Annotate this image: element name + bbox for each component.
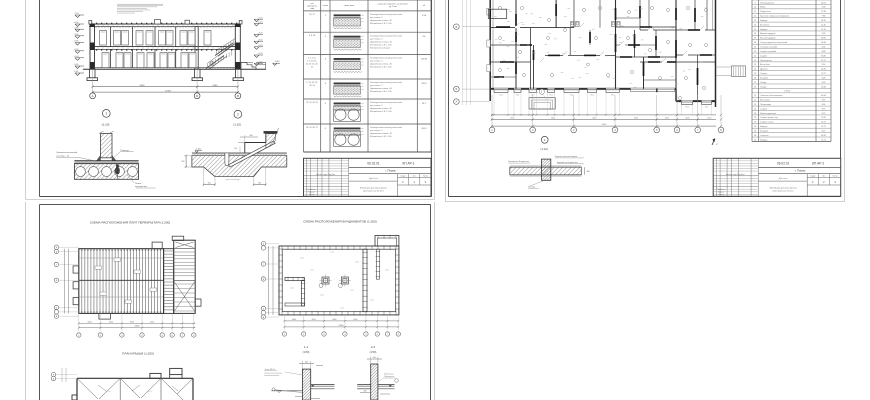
svg-text:6000: 6000 [551, 118, 555, 120]
building section - staircase [206, 39, 235, 70]
svg-text:Дип.бчть: Дип.бчть [779, 178, 789, 180]
svg-text:20, 24: 20, 24 [309, 85, 314, 87]
svg-text:ПЛАН КРЫШИ (1:200): ПЛАН КРЫШИ (1:200) [122, 352, 154, 356]
svg-text:Востановая: Востановая [760, 100, 770, 102]
svg-text:Консульт: Консульт [308, 192, 315, 194]
svg-text:6000: 6000 [707, 118, 711, 120]
detail 2 - elevation mark [195, 149, 202, 153]
svg-text:Дип.бчть: Дип.бчть [369, 178, 379, 180]
svg-text:640: 640 [373, 357, 376, 359]
svg-text:Стадия: Стадия [810, 176, 815, 178]
svg-text:16, 17: 16, 17 [309, 14, 314, 16]
svg-text:+6.00: +6.00 [73, 22, 79, 24]
svg-text:2: 2 [237, 113, 239, 117]
detail 1 label cement mortar [57, 151, 98, 161]
detail 1-1 ground line [271, 388, 302, 393]
svg-text:Линолеум безосновный утепленны: Линолеум безосновный утепленный [370, 34, 402, 37]
svg-text:10: 10 [754, 7, 756, 9]
floor plan bottom axis circles [489, 127, 724, 133]
foundation scheme outer walls [278, 245, 400, 316]
svg-text:Санузел сестры: Санузел сестры [760, 122, 774, 124]
svg-text:600: 600 [208, 183, 211, 185]
svg-text:-0.45: -0.45 [275, 61, 281, 63]
svg-text:Б: Б [456, 87, 458, 91]
building section - foundation left [87, 69, 98, 80]
svg-text:6000: 6000 [353, 319, 357, 321]
svg-text:27: 27 [754, 82, 756, 84]
svg-text:+1.20: +1.20 [73, 49, 79, 51]
svg-text:В: В [237, 94, 239, 98]
svg-text:11960: 11960 [165, 90, 172, 92]
svg-text:6000: 6000 [665, 118, 669, 120]
floors table grid [304, 0, 432, 152]
svg-text:11: 11 [754, 11, 756, 13]
svg-text:Стадия: Стадия [400, 176, 405, 178]
floors table data rows [306, 13, 428, 146]
title block frame [304, 158, 432, 196]
svg-text:i=1:12: i=1:12 [148, 391, 153, 393]
svg-text:Мужской гардероб: Мужской гардероб [760, 32, 776, 35]
svg-text:Спальная, бечесловащина: Спальная, бечесловащина [760, 95, 782, 97]
svg-text:Лист: Лист [413, 176, 417, 178]
floor plan interior walls vertical [516, 0, 707, 101]
building section - ceiling hatch 2nd floor [96, 27, 231, 29]
detail 1 - anchor bolt [115, 165, 119, 180]
svg-text:ОК-1: ОК-1 [499, 95, 503, 97]
title block project name cell [349, 178, 398, 197]
title block project name cell [758, 178, 807, 197]
svg-text:7.86: 7.86 [822, 16, 826, 18]
svg-text:-1.100: -1.100 [195, 149, 202, 151]
detail 1 - partition column [99, 131, 114, 158]
svg-text:ОК-1: ОК-1 [590, 95, 594, 97]
svg-text:6000: 6000 [510, 118, 514, 120]
svg-text:Железобетонный грунт: Железобетонный грунт [370, 46, 390, 49]
svg-text:Железобетон 4 Б 5 - 100: Железобетон 4 Б 5 - 100 [370, 44, 391, 46]
svg-text:Железобетон 4 Б 5 - 100: Железобетон 4 Б 5 - 100 [370, 67, 391, 69]
detail 2-2 title [370, 345, 377, 354]
svg-text:Плита: Плита [135, 183, 142, 185]
title block frame [713, 158, 841, 196]
svg-text:13.71: 13.71 [821, 139, 826, 141]
detail 1 - plinth blocks [97, 155, 117, 161]
detail 1-1 bottom dims [295, 397, 320, 399]
slab scheme left dims [64, 249, 68, 314]
detail 2-2 labels [378, 373, 398, 382]
svg-text:г. Пермь: г. Пермь [795, 169, 806, 173]
svg-text:цем стяжка - 5: цем стяжка - 5 [370, 130, 383, 132]
svg-text:Железобетон 4 Б 5 - 100: Железобетон 4 Б 5 - 100 [370, 111, 391, 113]
detail 1 - hollow core slab [74, 164, 138, 180]
floor plan left axis circles [454, 0, 490, 105]
detail 1-1 labels [264, 368, 302, 376]
building section - chimney left [155, 20, 161, 24]
building section - 1st floor doors [102, 53, 196, 68]
svg-text:38.25: 38.25 [421, 83, 427, 85]
floor plan porch bottom [529, 89, 555, 109]
foundation scheme interior walls [285, 249, 380, 312]
svg-text:(1:50): (1:50) [303, 350, 310, 354]
svg-text:цем стяжка - 5: цем стяжка - 5 [370, 105, 383, 107]
svg-text:6000: 6000 [312, 319, 316, 321]
svg-text:Н.контр: Н.контр [309, 194, 315, 196]
svg-text:цем стяжка - 5: цем стяжка - 5 [370, 85, 383, 87]
svg-text:18: 18 [754, 42, 756, 44]
svg-text:Линолеум безосновный утепленны: Линолеум безосновный утепленный [370, 13, 402, 16]
slab scheme protrusions [73, 236, 201, 319]
detail 1 label plinth [115, 150, 134, 157]
svg-text:(1:10): (1:10) [102, 123, 110, 127]
title block city cell [349, 169, 431, 174]
svg-text:КП АР-2: КП АР-2 [812, 162, 824, 166]
slab scheme ladder column [164, 249, 174, 314]
sheet 2 frame [448, 0, 450, 197]
building section - chimney right [185, 20, 190, 24]
svg-text:44.06: 44.06 [821, 2, 826, 4]
floor plan bottom dimension lines [491, 95, 722, 128]
svg-text:26: 26 [754, 77, 756, 79]
svg-text:6.92: 6.92 [822, 100, 826, 102]
svg-text:06.02.01: 06.02.01 [367, 162, 380, 166]
svg-text:+2.85: +2.85 [257, 45, 263, 47]
svg-text:6000: 6000 [150, 321, 154, 323]
svg-text:Церезитовая стяжка - 40: Церезитовая стяжка - 40 [370, 64, 392, 66]
roof plan outline [72, 368, 193, 400]
svg-text:(1:10): (1:10) [541, 147, 548, 151]
svg-text:38.13: 38.13 [421, 128, 427, 130]
building section - left elevation marks [73, 13, 84, 75]
svg-text:Блок ФБС-4: Блок ФБС-4 [265, 368, 275, 371]
svg-text:Мойка: Мойка [760, 6, 765, 9]
svg-text:ОК-1: ОК-1 [705, 106, 709, 108]
svg-text:Линолеум безосновный утепленны: Линолеум безосновный утепленный [370, 57, 402, 60]
svg-text:Церезитовая стяжка - 40: Церезитовая стяжка - 40 [370, 88, 392, 90]
svg-text:Железобетон 4 Б 5 - 100: Железобетон 4 Б 5 - 100 [370, 23, 391, 25]
svg-text:Вестибюль: Вестибюль [760, 24, 769, 26]
detail 1-1 title [303, 345, 310, 354]
svg-text:17.84: 17.84 [821, 11, 826, 13]
svg-text:А: А [92, 94, 94, 98]
svg-text:Склад натуральных облекчений: Склад натуральных облекчений [760, 41, 787, 44]
svg-text:56.36: 56.36 [821, 42, 826, 44]
svg-text:Н.контр: Н.контр [719, 194, 725, 196]
svg-text:14.66: 14.66 [821, 86, 826, 88]
slab scheme right block [174, 240, 196, 313]
svg-text:6000: 6000 [292, 319, 296, 321]
svg-text:7, 9, 10, 11,: 7, 9, 10, 11, [307, 61, 317, 63]
wall detail marker circle [541, 136, 548, 143]
svg-text:380: 380 [364, 391, 367, 393]
svg-text:12.71: 12.71 [821, 60, 826, 62]
svg-text:Кладовая: Кладовая [760, 77, 768, 79]
svg-text:25: 25 [754, 113, 756, 115]
foundation scheme bottom dims [283, 315, 399, 330]
svg-text:30: 30 [754, 135, 756, 137]
detail 2 - left dim [182, 155, 192, 168]
svg-text:17: 17 [754, 38, 756, 40]
svg-text:380: 380 [587, 171, 590, 173]
building section - interior partitions 1st floor [111, 49, 176, 67]
svg-text:+0.00: +0.00 [73, 56, 79, 58]
svg-text:2-2: 2-2 [371, 345, 376, 349]
sheet 3 paper edges [26, 202, 435, 400]
svg-text:Железобетон 4 Б 5 - 100: Железобетон 4 Б 5 - 100 [370, 91, 391, 93]
svg-text:28: 28 [754, 86, 756, 88]
svg-text:44.94: 44.94 [821, 95, 826, 97]
svg-text:+6.00: +6.00 [257, 22, 263, 24]
svg-text:уплотненный грунт: уплотненный грунт [226, 178, 241, 181]
svg-text:Коридор: Коридор [760, 139, 767, 141]
svg-text:Коридор: Коридор [760, 29, 767, 31]
svg-text:21, 22, 23, 25: 21, 22, 23, 25 [306, 102, 318, 104]
svg-text:Тамбур: Тамбур [760, 82, 766, 84]
svg-text:Разработал: Разработал [307, 189, 315, 191]
svg-text:ОК-1: ОК-1 [611, 95, 615, 97]
detail 2 - slab body with footing [192, 156, 287, 177]
svg-text:Жилой дом для престарелых: Жилой дом для престарелых [770, 187, 797, 190]
svg-text:2, 13, 14, 15,: 2, 13, 14, 15, [306, 82, 318, 84]
building section - second floor slab [95, 47, 236, 51]
roof plan hips and ridges [77, 378, 193, 400]
svg-text:16: 16 [754, 33, 756, 35]
svg-text:15: 15 [754, 29, 756, 31]
svg-text:2 Этаж: 2 Этаж [784, 91, 791, 93]
detail 1 label slab [127, 175, 156, 189]
floor plan right entrance stair [716, 66, 746, 77]
svg-text:56.15: 56.15 [821, 20, 826, 22]
detail 2-2 bottom dims [360, 391, 390, 395]
svg-text:12: 12 [754, 16, 756, 18]
svg-text:65.82: 65.82 [821, 38, 826, 40]
svg-text:Консульт: Консульт [718, 192, 725, 194]
svg-text:6000: 6000 [109, 321, 113, 323]
building section - 2nd floor doors [100, 31, 212, 46]
foundation scheme top-right protrusion [375, 235, 399, 246]
detail 2 - bottom dims [203, 167, 267, 186]
svg-text:8.58: 8.58 [822, 51, 826, 53]
axis circle A section [90, 93, 96, 99]
building section - right porch rail [256, 63, 266, 70]
svg-text:1: 1 [105, 112, 107, 116]
svg-text:название покрытия, составной и: название покрытия, составной и [377, 2, 407, 5]
detail 1-1 floor slab [311, 385, 335, 389]
title block city cell [758, 169, 840, 174]
svg-text:+4.80: +4.80 [73, 27, 79, 29]
svg-text:раствор - 10: раствор - 10 [57, 155, 70, 157]
detail 2 - step dims [234, 135, 258, 153]
building section - floor line ground [83, 68, 266, 70]
detail 2-2 floor slabs both sides [357, 385, 394, 389]
svg-text:+2.85: +2.85 [73, 41, 79, 43]
floor plan door openings [515, 23, 705, 62]
svg-text:20: 20 [754, 51, 756, 53]
detail 2 marker circle [234, 110, 242, 118]
svg-text:44.94: 44.94 [821, 135, 826, 137]
svg-text:22: 22 [754, 60, 756, 62]
svg-text:22: 22 [754, 100, 756, 102]
axis circle B section [194, 93, 200, 99]
svg-text:+7.45: +7.45 [257, 17, 263, 19]
svg-text:схема: схема [323, 5, 329, 7]
floor plan bottom wall with windows [490, 88, 715, 115]
svg-text:6.10: 6.10 [822, 130, 826, 132]
svg-text:Церезитовая стяжка - 40: Церезитовая стяжка - 40 [370, 41, 392, 43]
svg-text:5980: 5980 [140, 85, 146, 87]
svg-text:14.66: 14.66 [821, 69, 826, 71]
svg-text:Цементно-песчаный: Цементно-песчаный [57, 151, 79, 154]
svg-text:19: 19 [754, 47, 756, 49]
svg-text:1-1: 1-1 [304, 345, 309, 349]
svg-text:СХЕМА РАСПОЛОЖЕНИЯ ПЛИТ ПЕРЕКР: СХЕМА РАСПОЛОЖЕНИЯ ПЛИТ ПЕРЕКРЫТИЯ (1:20… [90, 221, 170, 225]
svg-text:Церезитовая стяжка - 40: Церезитовая стяжка - 40 [370, 108, 392, 110]
svg-text:Линолеум безосновный утепленны: Линолеум безосновный утепленный [370, 101, 402, 104]
floor plan room tag circles [499, 7, 708, 100]
svg-text:Столовая настройки: Столовая настройки [760, 46, 777, 49]
svg-text:Кирпичная Кладочная: Кирпичная Кладочная [509, 161, 530, 163]
svg-text:Санузел настройки: Санузел настройки [760, 50, 776, 53]
svg-text:г. Пермь: г. Пермь [385, 169, 396, 173]
svg-text:6000: 6000 [634, 118, 638, 120]
sheet 1 paper edges [26, 0, 435, 200]
detail 2 - step [245, 131, 277, 153]
building section - foundation middle [192, 69, 203, 80]
svg-text:600: 600 [258, 183, 261, 185]
svg-text:м²: м² [423, 4, 425, 7]
foundation scheme bottom axis circles [282, 332, 400, 336]
roof plan axis circles [51, 368, 77, 382]
svg-text:Вести бюль: Вести бюль [760, 64, 770, 66]
foundation scheme left axis circles [261, 241, 279, 319]
svg-text:(1:50): (1:50) [370, 350, 377, 354]
svg-text:ОК-1: ОК-1 [549, 95, 553, 97]
svg-text:6000: 6000 [685, 118, 689, 120]
svg-text:150: 150 [234, 148, 237, 150]
svg-text:12, 19, 15, 20,: 12, 19, 15, 20, [306, 64, 319, 66]
svg-text:Лист: Лист [822, 176, 826, 178]
svg-text:640: 640 [305, 362, 308, 364]
svg-text:ОК-1: ОК-1 [516, 95, 520, 97]
svg-text:27: 27 [754, 122, 756, 124]
svg-text:9.75: 9.75 [822, 113, 826, 115]
svg-text:ОК-1: ОК-1 [570, 95, 574, 97]
wall detail - column [542, 159, 551, 180]
foundation scheme interior marks [290, 252, 389, 308]
foundation scheme column footings [319, 275, 351, 288]
svg-text:300: 300 [182, 161, 185, 163]
svg-text:29: 29 [754, 130, 756, 132]
svg-text:т.д. 1 мм: т.д. 1 мм [389, 6, 398, 8]
svg-text:24: 24 [754, 69, 756, 71]
svg-text:13.71: 13.71 [821, 122, 826, 124]
building section - interior partitions 2nd floor [111, 27, 176, 47]
svg-text:23: 23 [754, 104, 756, 106]
floor plan poche wall segments [494, 4, 712, 85]
svg-text:24600: 24600 [135, 326, 140, 328]
svg-text:Перекрытия: Перекрытия [384, 376, 394, 378]
building section - right wall [235, 21, 242, 70]
svg-text:Коридор: Коридор [760, 20, 767, 22]
svg-text:12.11: 12.11 [821, 29, 825, 31]
svg-text:6000: 6000 [130, 321, 134, 323]
detail 2 - drain slot [225, 153, 229, 166]
svg-text:6000: 6000 [332, 319, 336, 321]
svg-text:+3.30: +3.30 [73, 34, 79, 36]
svg-text:10.29: 10.29 [821, 117, 826, 119]
building section - middle column [195, 27, 198, 70]
svg-text:+3.30: +3.30 [257, 39, 263, 41]
svg-text:+7.45: +7.45 [73, 13, 79, 15]
slab scheme left axis circles [54, 245, 79, 318]
svg-text:Церезитовая стяжка - 40: Церезитовая стяжка - 40 [370, 20, 392, 22]
svg-text:Санузел: Санузел [760, 73, 767, 75]
svg-text:Хранение стиральных материалов: Хранение стиральных материалов [760, 16, 789, 18]
svg-text:В: В [456, 25, 458, 29]
svg-text:21: 21 [311, 67, 313, 69]
svg-text:8.36: 8.36 [822, 104, 826, 106]
svg-text:57.27: 57.27 [821, 126, 826, 128]
svg-text:6000: 6000 [88, 321, 92, 323]
svg-text:28: 28 [754, 126, 756, 128]
svg-text:9.06: 9.06 [822, 7, 826, 9]
svg-text:Линолеум безосновный утепленны: Линолеум безосновный утепленный [370, 81, 402, 84]
svg-text:Линолеум безосновный утепленны: Линолеум безосновный утепленный [370, 126, 402, 129]
svg-text:9: 9 [755, 2, 756, 4]
svg-text:24600: 24600 [339, 325, 344, 327]
roof plan slope arrows [98, 385, 178, 393]
wall detail right dim [585, 167, 590, 175]
title block stage-sheet cells [398, 174, 432, 185]
building section - right elevation marks [254, 17, 263, 65]
slab scheme bottom axis circles [77, 333, 196, 337]
svg-text:цем стяжка - 5: цем стяжка - 5 [370, 61, 383, 63]
svg-text:9.14: 9.14 [822, 64, 826, 66]
floor plan interior walls horizontal [488, 9, 715, 80]
svg-text:24, 25, 26, 27: 24, 25, 26, 27 [306, 127, 318, 129]
svg-text:Разработал: Разработал [717, 189, 725, 191]
svg-text:11.45: 11.45 [821, 24, 825, 26]
detail 2 - ramp white band [229, 128, 279, 167]
svg-text:Листов: Листов [833, 176, 838, 178]
svg-text:300: 300 [249, 135, 252, 137]
floor plan small dimension texts [494, 8, 708, 88]
svg-text:Электрощитовая: Электрощитовая [760, 2, 774, 4]
svg-text:13: 13 [754, 20, 756, 22]
svg-text:Церезитовая стяжка - 40: Церезитовая стяжка - 40 [370, 133, 392, 135]
svg-text:Санузел: Санузел [760, 108, 767, 110]
svg-text:123.82: 123.82 [421, 59, 428, 61]
svg-text:31: 31 [754, 139, 756, 141]
svg-text:25: 25 [754, 73, 756, 75]
svg-text:6000: 6000 [592, 118, 596, 120]
building section - entrance steps right [241, 63, 256, 70]
wall detail labels [509, 156, 584, 188]
building section - foundation right [233, 69, 244, 80]
svg-text:i=1:12: i=1:12 [106, 391, 111, 393]
svg-text:Б: Б [196, 94, 198, 98]
svg-text:8.75: 8.75 [822, 108, 826, 110]
svg-text:А: А [456, 100, 458, 104]
svg-text:5980: 5980 [213, 85, 219, 87]
svg-text:схема пола: схема пола [344, 5, 355, 7]
svg-text:Анкера: Анкера [528, 185, 536, 188]
title block stage-sheet cells [807, 174, 841, 185]
svg-text:1, 2, 4, 6,: 1, 2, 4, 6, [308, 58, 316, 60]
svg-text:Женский гардероб: Женский гардероб [760, 37, 775, 40]
floor plan outer walls [490, 0, 715, 107]
detail 2-2 wall [367, 357, 382, 400]
svg-text:06.02.01: 06.02.01 [777, 162, 790, 166]
floor plan left wall windows [487, 8, 490, 71]
